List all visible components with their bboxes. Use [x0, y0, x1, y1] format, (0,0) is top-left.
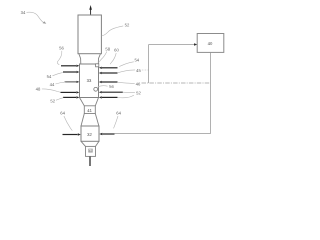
- bottom pipe: [89, 156, 91, 166]
- left feed arrow row3: [65, 81, 77, 83]
- svg-text:52: 52: [50, 98, 55, 103]
- svg-text:34: 34: [21, 10, 26, 15]
- svg-text:52: 52: [136, 90, 141, 95]
- leader 45 right: [118, 70, 135, 73]
- leader 54 right: [119, 62, 134, 67]
- taper quench to outlet: [81, 141, 99, 146]
- leader 60: [110, 53, 116, 64]
- svg-text:60: 60: [114, 48, 119, 53]
- svg-text:32: 32: [87, 132, 92, 137]
- svg-text:46: 46: [136, 81, 141, 86]
- leader 52: [102, 26, 124, 36]
- left feed arrow row4: [61, 91, 77, 93]
- taper 33 to throat: [80, 98, 99, 106]
- leader 48 left: [42, 89, 61, 92]
- left feed arrow row2: [63, 71, 76, 73]
- leader 64 right: [114, 116, 119, 128]
- quench box 32: [81, 126, 99, 141]
- top outlet arrow: [90, 9, 92, 15]
- svg-text:56: 56: [109, 84, 114, 89]
- svg-text:41: 41: [87, 108, 92, 113]
- leader row5 right: [118, 95, 134, 98]
- right feed arrow row4: [102, 91, 123, 93]
- dashed link 45 to riser: [142, 69, 149, 71]
- controller output arrow into quench: [103, 133, 115, 135]
- leader 56 circle: [97, 86, 107, 87]
- svg-text:48: 48: [36, 86, 41, 91]
- controller output line: [115, 52, 211, 133]
- svg-text:33: 33: [87, 78, 92, 83]
- leader 46 right: [118, 82, 135, 83]
- bottom left feed arrow: [63, 134, 78, 136]
- leader 52 right: [123, 91, 135, 93]
- right feed arrow row3: [102, 81, 118, 83]
- controller box 40: [197, 34, 224, 53]
- right feed arrow row5: [102, 96, 118, 98]
- svg-text:64: 64: [116, 111, 121, 116]
- svg-text:40: 40: [208, 41, 213, 46]
- right feed arrow row2: [102, 72, 118, 74]
- svg-text:64: 64: [60, 111, 65, 116]
- svg-text:44: 44: [50, 82, 55, 87]
- dash-dot sensor line to controller: [142, 82, 211, 84]
- left feed arrow row1: [61, 65, 76, 67]
- leader 58: [100, 52, 107, 63]
- svg-text:58: 58: [105, 46, 110, 51]
- left feed arrow row5: [63, 96, 76, 98]
- outlet box 42: [86, 146, 96, 156]
- svg-text:52: 52: [125, 23, 130, 28]
- signal riser to controller: [149, 45, 195, 84]
- throat box 41: [84, 106, 95, 114]
- taper throat to quench: [81, 114, 99, 127]
- leader 44 left: [56, 82, 66, 84]
- vessel top box: [78, 15, 101, 54]
- leader 56: [57, 51, 62, 65]
- svg-text:42: 42: [89, 149, 93, 153]
- sensor square: [96, 64, 99, 67]
- middle vessel section 33: [80, 64, 99, 98]
- svg-text:54: 54: [47, 74, 52, 79]
- leader 54 left: [53, 72, 63, 75]
- sensor circle: [94, 87, 98, 91]
- leader 64 left: [64, 116, 72, 131]
- neck taper: [79, 54, 101, 64]
- svg-text:45: 45: [136, 68, 141, 73]
- right feed arrow row1: [102, 67, 118, 69]
- svg-text:54: 54: [134, 58, 139, 63]
- svg-text:56: 56: [59, 46, 64, 51]
- leader 52 left: [56, 98, 63, 101]
- leader 34: [27, 12, 45, 23]
